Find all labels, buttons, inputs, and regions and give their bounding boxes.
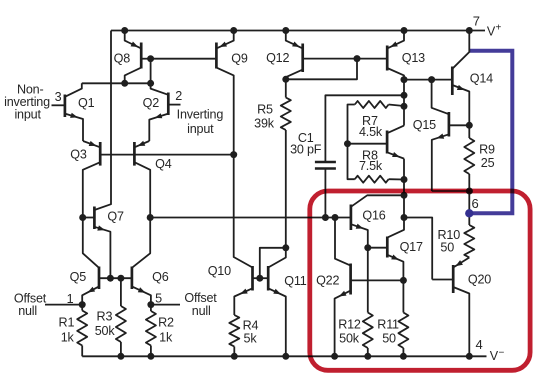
- transistor Q20: [452, 265, 455, 293]
- node R12 bottom on rail: [364, 353, 371, 360]
- svg-text:5k: 5k: [244, 332, 258, 346]
- resistor R9: [468, 125, 470, 138]
- resistor R5: [285, 79, 287, 97]
- node C1 bottom junction: [322, 214, 329, 221]
- svg-text:3: 3: [55, 90, 62, 104]
- svg-text:Q22: Q22: [316, 274, 339, 288]
- transistor Q1: [64, 95, 67, 118]
- svg-text:1k: 1k: [159, 331, 173, 345]
- transistor Q6: [131, 267, 134, 290]
- node 6 blue dot: [465, 209, 473, 217]
- svg-text:4: 4: [475, 337, 482, 352]
- node output junction at red line: [466, 188, 473, 195]
- svg-text:R4: R4: [243, 319, 259, 333]
- transistor Q5: [98, 267, 101, 290]
- node Q3/Q4 base junction: [230, 151, 237, 158]
- wire second-stage input line y=217.5 (Q4/Q6 collectors to Q16 base): [150, 217, 351, 219]
- wire left vertical from V+ rail to Q7 collector: [94, 31, 111, 211]
- svg-text:R5: R5: [257, 103, 273, 117]
- node Q3 collector / Q7 base junction: [79, 214, 86, 221]
- svg-text:Q12: Q12: [266, 51, 289, 65]
- pin 3 wire: [52, 104, 65, 106]
- transistor Q2: [167, 93, 170, 116]
- svg-text:R11: R11: [377, 318, 399, 332]
- pin 4 node: [466, 353, 473, 360]
- node R3 tap junction: [117, 275, 124, 282]
- node Q13 collector / Q14 base branch: [401, 76, 408, 83]
- transistor Q14: [451, 67, 454, 96]
- node Q15 collector branch: [428, 76, 435, 83]
- wire Q17 collector column: [387, 159, 404, 238]
- node Q14 emitter / R9 top / Q15 base: [466, 122, 473, 129]
- svg-text:Q4: Q4: [155, 157, 172, 171]
- transistor VBE-multiplier (between R7 and R8): [386, 131, 389, 154]
- svg-text:25: 25: [481, 156, 495, 170]
- wire Q11 collector-base tie: [260, 248, 286, 278]
- svg-text:Offset: Offset: [184, 291, 217, 305]
- wire Q9 collector node down to Q10 collector: [234, 155, 253, 268]
- node Q12 emitter on V+ rail: [282, 27, 289, 34]
- svg-text:R3: R3: [97, 310, 113, 324]
- node R11 bottom on rail: [400, 353, 407, 360]
- wire Q1/Q2/Q8 collector bus y=83: [82, 82, 151, 84]
- node Q4 collector junction: [147, 214, 154, 221]
- svg-text:Q17: Q17: [400, 240, 423, 254]
- svg-text:5: 5: [155, 292, 162, 306]
- node Q6 emitter junction: [147, 301, 154, 308]
- svg-text:R2: R2: [158, 316, 174, 330]
- svg-text:6: 6: [471, 196, 478, 211]
- svg-text:30 pF: 30 pF: [290, 143, 322, 157]
- svg-text:+: +: [495, 22, 501, 33]
- node C1 top branch: [401, 92, 408, 99]
- node Q13 emitter on V+ rail: [401, 27, 408, 34]
- transistor Q11: [267, 266, 270, 291]
- svg-text:−: −: [498, 347, 504, 358]
- svg-text:R12: R12: [338, 318, 361, 332]
- svg-text:input: input: [187, 122, 214, 136]
- resistor R8: [355, 176, 389, 183]
- node Q9 emitter on V+ rail: [230, 27, 237, 34]
- transistor Q12: [301, 44, 304, 73]
- svg-text:input: input: [14, 108, 41, 122]
- node Q10/Q11 base tap: [256, 275, 263, 282]
- transistor Q10: [251, 266, 254, 291]
- node R7/R8 base bus junction: [344, 140, 351, 147]
- svg-text:Q10: Q10: [208, 264, 231, 278]
- svg-text:Q14: Q14: [470, 72, 493, 86]
- wire Q3/Q4 base line to Q9/Q10 node: [100, 154, 234, 156]
- pin 2 wire: [168, 104, 180, 106]
- svg-text:Q6: Q6: [152, 270, 169, 284]
- node Q8 base junction: [147, 55, 154, 62]
- resistor R10: [464, 225, 474, 258]
- svg-text:Inverting: Inverting: [177, 107, 224, 121]
- node Q7 emitter junction: [107, 275, 114, 282]
- svg-text:Q2: Q2: [143, 96, 160, 110]
- svg-text:V: V: [490, 349, 499, 363]
- node R8 right junction: [401, 176, 408, 183]
- annotation red highlight box (output stage): [310, 191, 530, 370]
- pin 7 node: [466, 27, 473, 34]
- wire V+ top rail: [111, 30, 485, 32]
- transistor Q4: [133, 142, 136, 166]
- svg-text:R9: R9: [479, 142, 495, 156]
- node Q17 emitter / R11 / Q22 base: [400, 277, 407, 284]
- resistor R3: [120, 278, 122, 306]
- node R5 bottom junction: [282, 244, 289, 251]
- wire Q20 base to VBE net: [404, 218, 432, 280]
- svg-text:50: 50: [440, 240, 454, 254]
- wire V- bottom rail: [82, 355, 486, 357]
- wire node 6 to R10: [468, 213, 470, 225]
- node Q5 emitter junction: [79, 301, 86, 308]
- svg-text:Q20: Q20: [468, 273, 491, 287]
- transistor Q8: [140, 43, 143, 69]
- node Q11 emitter on rail: [282, 353, 289, 360]
- node Q20 base branch: [401, 214, 408, 221]
- node Q12 collector / R5 top: [282, 76, 289, 83]
- wire C1 top lead: [325, 95, 404, 162]
- transistor Q13: [386, 46, 389, 71]
- resistor R2: [150, 305, 152, 311]
- svg-text:4.5k: 4.5k: [359, 125, 383, 139]
- node Q22 emitter on rail: [331, 353, 338, 360]
- wire Q12 diode tie: [286, 59, 357, 80]
- resistor R4: [229, 315, 239, 347]
- capacitor C1: [315, 161, 336, 163]
- svg-text:50k: 50k: [95, 324, 116, 338]
- node Q16 collector branch: [401, 192, 408, 199]
- transistor Q7: [93, 207, 96, 230]
- svg-text:1k: 1k: [61, 331, 75, 345]
- svg-text:Q3: Q3: [70, 148, 87, 162]
- svg-text:null: null: [18, 304, 37, 318]
- svg-text:Q13: Q13: [402, 51, 425, 65]
- resistor R7: [355, 101, 389, 108]
- node Q8 collector junction: [121, 80, 128, 87]
- svg-text:R1: R1: [59, 316, 75, 330]
- wire Q13 collector column upper: [403, 80, 405, 126]
- pin 5 wire: [151, 304, 180, 306]
- svg-text:null: null: [192, 304, 211, 318]
- wire Q15 emitter to output node (under red highlight): [432, 190, 470, 192]
- svg-text:7.5k: 7.5k: [359, 159, 383, 173]
- resistor R11: [402, 280, 404, 312]
- transistor Q3: [99, 142, 102, 166]
- node Q2 collector junction: [147, 80, 154, 87]
- wire Q14 base line: [404, 79, 452, 81]
- svg-text:Q5: Q5: [70, 270, 87, 284]
- node R7 right junction: [401, 103, 408, 110]
- node Q12/Q13 base junction: [354, 55, 361, 62]
- node Q16 emitter / Q17 base: [364, 244, 371, 251]
- node R4 bottom on rail: [231, 353, 238, 360]
- svg-text:7: 7: [473, 14, 480, 29]
- resistor R12: [367, 248, 369, 313]
- transistor Q22: [349, 264, 352, 295]
- svg-text:Q11: Q11: [284, 274, 306, 288]
- transistor Q15: [448, 112, 451, 137]
- svg-text:Q7: Q7: [107, 210, 124, 224]
- svg-text:Q8: Q8: [114, 52, 131, 66]
- pin 1 wire: [45, 304, 82, 306]
- wire Q8 base node to collector bus: [150, 59, 152, 84]
- svg-text:1: 1: [67, 292, 74, 306]
- node R2 bottom on rail: [147, 353, 154, 360]
- svg-text:Q1: Q1: [78, 96, 95, 110]
- svg-text:50: 50: [382, 331, 396, 345]
- svg-text:Q16: Q16: [362, 208, 385, 222]
- node R3 bottom on rail: [117, 353, 124, 360]
- svg-text:Q15: Q15: [413, 118, 436, 132]
- svg-text:Q9: Q9: [231, 51, 248, 65]
- transistor Q16: [350, 205, 353, 231]
- svg-text:50k: 50k: [339, 331, 360, 345]
- transistor Q17: [386, 237, 389, 258]
- annotation blue wire V+ to node 6: [470, 51, 512, 214]
- svg-text:2: 2: [175, 89, 182, 103]
- transistor Q9: [215, 43, 218, 69]
- svg-text:39k: 39k: [254, 117, 275, 131]
- node Q8 emitter on V+ rail: [121, 27, 128, 34]
- resistor R1: [81, 305, 83, 311]
- node C1 / Q16 base area second dot: [332, 214, 339, 221]
